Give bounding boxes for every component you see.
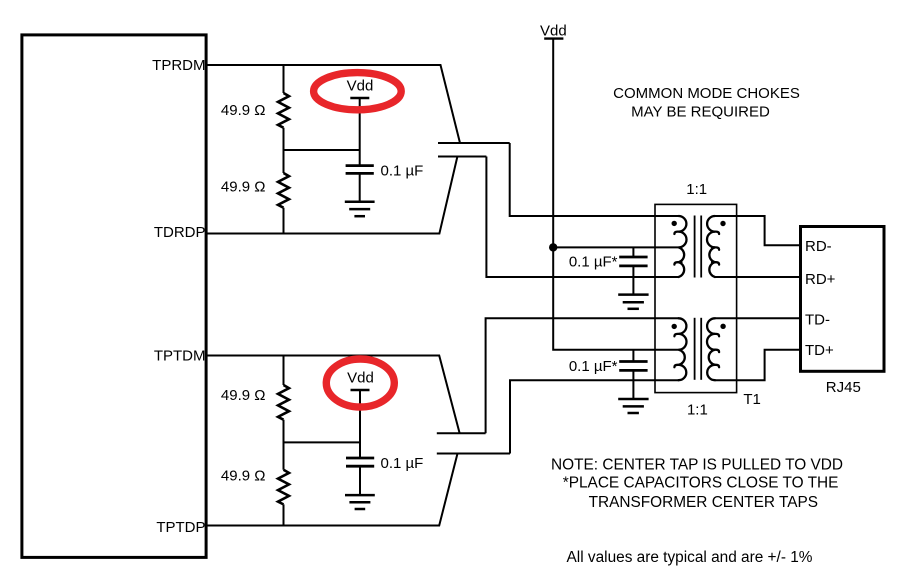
capacitor C4 0.1 uF* (transmit center tap) (632, 350, 634, 362)
wire TD- (transformer to RJ45) (736, 317, 800, 319)
wire C3 to ground (632, 266, 634, 294)
wire RD+ (transformer to RJ45) (736, 276, 800, 278)
transformer core (bottom) (694, 318, 696, 380)
capacitor C2 0.1 uF (346, 457, 374, 460)
wire R4 to TPTDP line (283, 504, 285, 525)
svg-text:49.9 Ω: 49.9 Ω (221, 387, 266, 404)
wire from lower stub up to transformer TD+ lead (510, 380, 679, 453)
svg-text:0.1 µF: 0.1 µF (381, 162, 424, 179)
wire mid junction to capacitor C1 (284, 149, 360, 151)
svg-text:NOTE: CENTER TAP IS PULLED TO: NOTE: CENTER TAP IS PULLED TO VDD (551, 457, 843, 474)
phase dot (bottom-right winding) (720, 324, 725, 329)
transformer core (top) (694, 216, 696, 278)
wire TD+ (transformer to RJ45) (736, 350, 800, 381)
ground (below C3) (618, 293, 648, 296)
phase dot (bottom-left winding) (672, 324, 677, 329)
svg-text:TRANSFORMER CENTER TAPS: TRANSFORMER CENTER TAPS (589, 494, 818, 511)
svg-text:1:1: 1:1 (686, 181, 707, 198)
svg-text:TD-: TD- (805, 311, 830, 328)
resistor R2 49.9 ohm (lower receive) (278, 173, 289, 208)
RJ45 connector box (801, 227, 885, 372)
wire from lower stub down to transformer RD+ lead (486, 157, 679, 278)
transformer winding: bottom-right secondary (707, 318, 719, 380)
svg-text:RD-: RD- (805, 238, 832, 255)
wire C1 to ground (359, 173, 361, 201)
wire upper stub of receive pair (438, 142, 510, 144)
svg-text:1:1: 1:1 (687, 401, 708, 418)
wire from upper stub down to transformer RD- lead (510, 143, 679, 216)
red highlight ellipse (receive Vdd) (314, 73, 402, 110)
phase dot (top-right winding) (720, 221, 725, 226)
resistor R4 49.9 ohm (lower transmit) (278, 470, 289, 505)
wire between R1 and R2 (283, 128, 285, 173)
ground (below C4) (618, 398, 648, 401)
wire C4 to ground (632, 370, 634, 398)
svg-text:T1: T1 (743, 391, 761, 408)
transformer winding: bottom-left primary with center tap (674, 318, 686, 380)
ground (below C1) (345, 201, 375, 204)
wire top-right winding lead stubs (715, 215, 737, 217)
svg-text:TDRDP: TDRDP (154, 224, 206, 241)
svg-text:Vdd: Vdd (347, 78, 374, 95)
wire TPRDM to choke gap (with diagonal) (206, 65, 460, 143)
svg-text:COMMON MODE CHOKES: COMMON MODE CHOKES (613, 85, 800, 102)
svg-text:TPTDM: TPTDM (154, 348, 206, 365)
ground (below C2) (345, 494, 375, 497)
wire top center tap (553, 246, 679, 248)
wire bottom-right winding lead stubs (715, 317, 737, 319)
wire lower stub of transmit pair (437, 453, 510, 455)
transformer winding: top-right secondary (707, 216, 719, 277)
svg-text:TD+: TD+ (805, 342, 834, 359)
wire TPTDP to choke gap (with diagonal) (206, 454, 458, 526)
svg-text:0.1 µF*: 0.1 µF* (569, 358, 618, 375)
IC block U1 (PHY) (22, 35, 206, 558)
svg-text:0.1 µF*: 0.1 µF* (569, 254, 618, 271)
resistor R1 49.9 ohm (upper receive) (283, 65, 285, 93)
wire mid junction to capacitor C2 (284, 441, 361, 443)
capacitor C3 0.1 uF* (receive center tap) (632, 247, 634, 256)
svg-text:*PLACE CAPACITORS CLOSE TO THE: *PLACE CAPACITORS CLOSE TO THE (563, 475, 839, 492)
svg-text:49.9 Ω: 49.9 Ω (221, 468, 266, 485)
svg-text:MAY BE REQUIRED: MAY BE REQUIRED (631, 104, 770, 121)
wire Vdd rail down to center taps (553, 39, 679, 350)
resistor R3 49.9 ohm (upper transmit) (283, 356, 285, 386)
junction dot (Vdd rail / top center tap) (549, 243, 557, 251)
svg-text:49.9 Ω: 49.9 Ω (221, 102, 266, 119)
wire R2 to TDRDP line (283, 208, 285, 234)
svg-text:TPRDM: TPRDM (152, 57, 205, 74)
svg-text:Vdd: Vdd (540, 22, 567, 39)
wire C2 to ground (359, 466, 361, 495)
svg-text:All values are typical and are: All values are typical and are +/- 1% (567, 549, 813, 566)
svg-text:0.1 µF: 0.1 µF (381, 455, 424, 472)
svg-text:TPTDP: TPTDP (156, 519, 205, 536)
wire upper stub of transmit pair (437, 432, 486, 434)
wire between R3 and R4 (283, 420, 285, 470)
svg-text:RJ45: RJ45 (826, 379, 861, 396)
phase dot (top-left winding) (672, 221, 677, 226)
svg-text:RD+: RD+ (805, 271, 836, 288)
capacitor C1 0.1 uF (346, 164, 374, 167)
wire lower stub of receive pair (438, 156, 486, 158)
wire RD- (transformer to RJ45) (736, 216, 800, 245)
transformer winding: top-left primary with center tap (674, 216, 686, 277)
wire TDRDP to choke gap (with diagonal) (206, 157, 457, 234)
red highlight ellipse (transmit Vdd) (326, 359, 394, 407)
transformer T1 outline box (655, 204, 737, 392)
svg-text:Vdd: Vdd (347, 370, 374, 387)
wire TPTDM to choke gap (with diagonal) (206, 356, 460, 433)
wire from upper stub up to transformer TD- lead (486, 318, 679, 433)
svg-text:49.9 Ω: 49.9 Ω (221, 179, 266, 196)
